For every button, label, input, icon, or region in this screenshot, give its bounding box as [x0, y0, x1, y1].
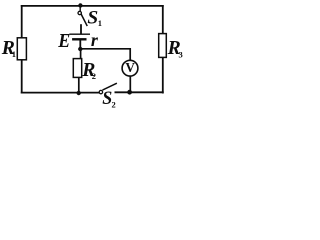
svg-text:2: 2 [92, 71, 96, 81]
svg-text:V: V [125, 60, 135, 75]
svg-text:S: S [87, 8, 98, 29]
svg-text:E: E [57, 31, 70, 52]
svg-text:2: 2 [112, 99, 116, 108]
svg-text:3: 3 [179, 50, 183, 60]
svg-text:1: 1 [98, 18, 102, 28]
svg-text:1: 1 [12, 49, 16, 59]
svg-text:r: r [91, 30, 99, 50]
